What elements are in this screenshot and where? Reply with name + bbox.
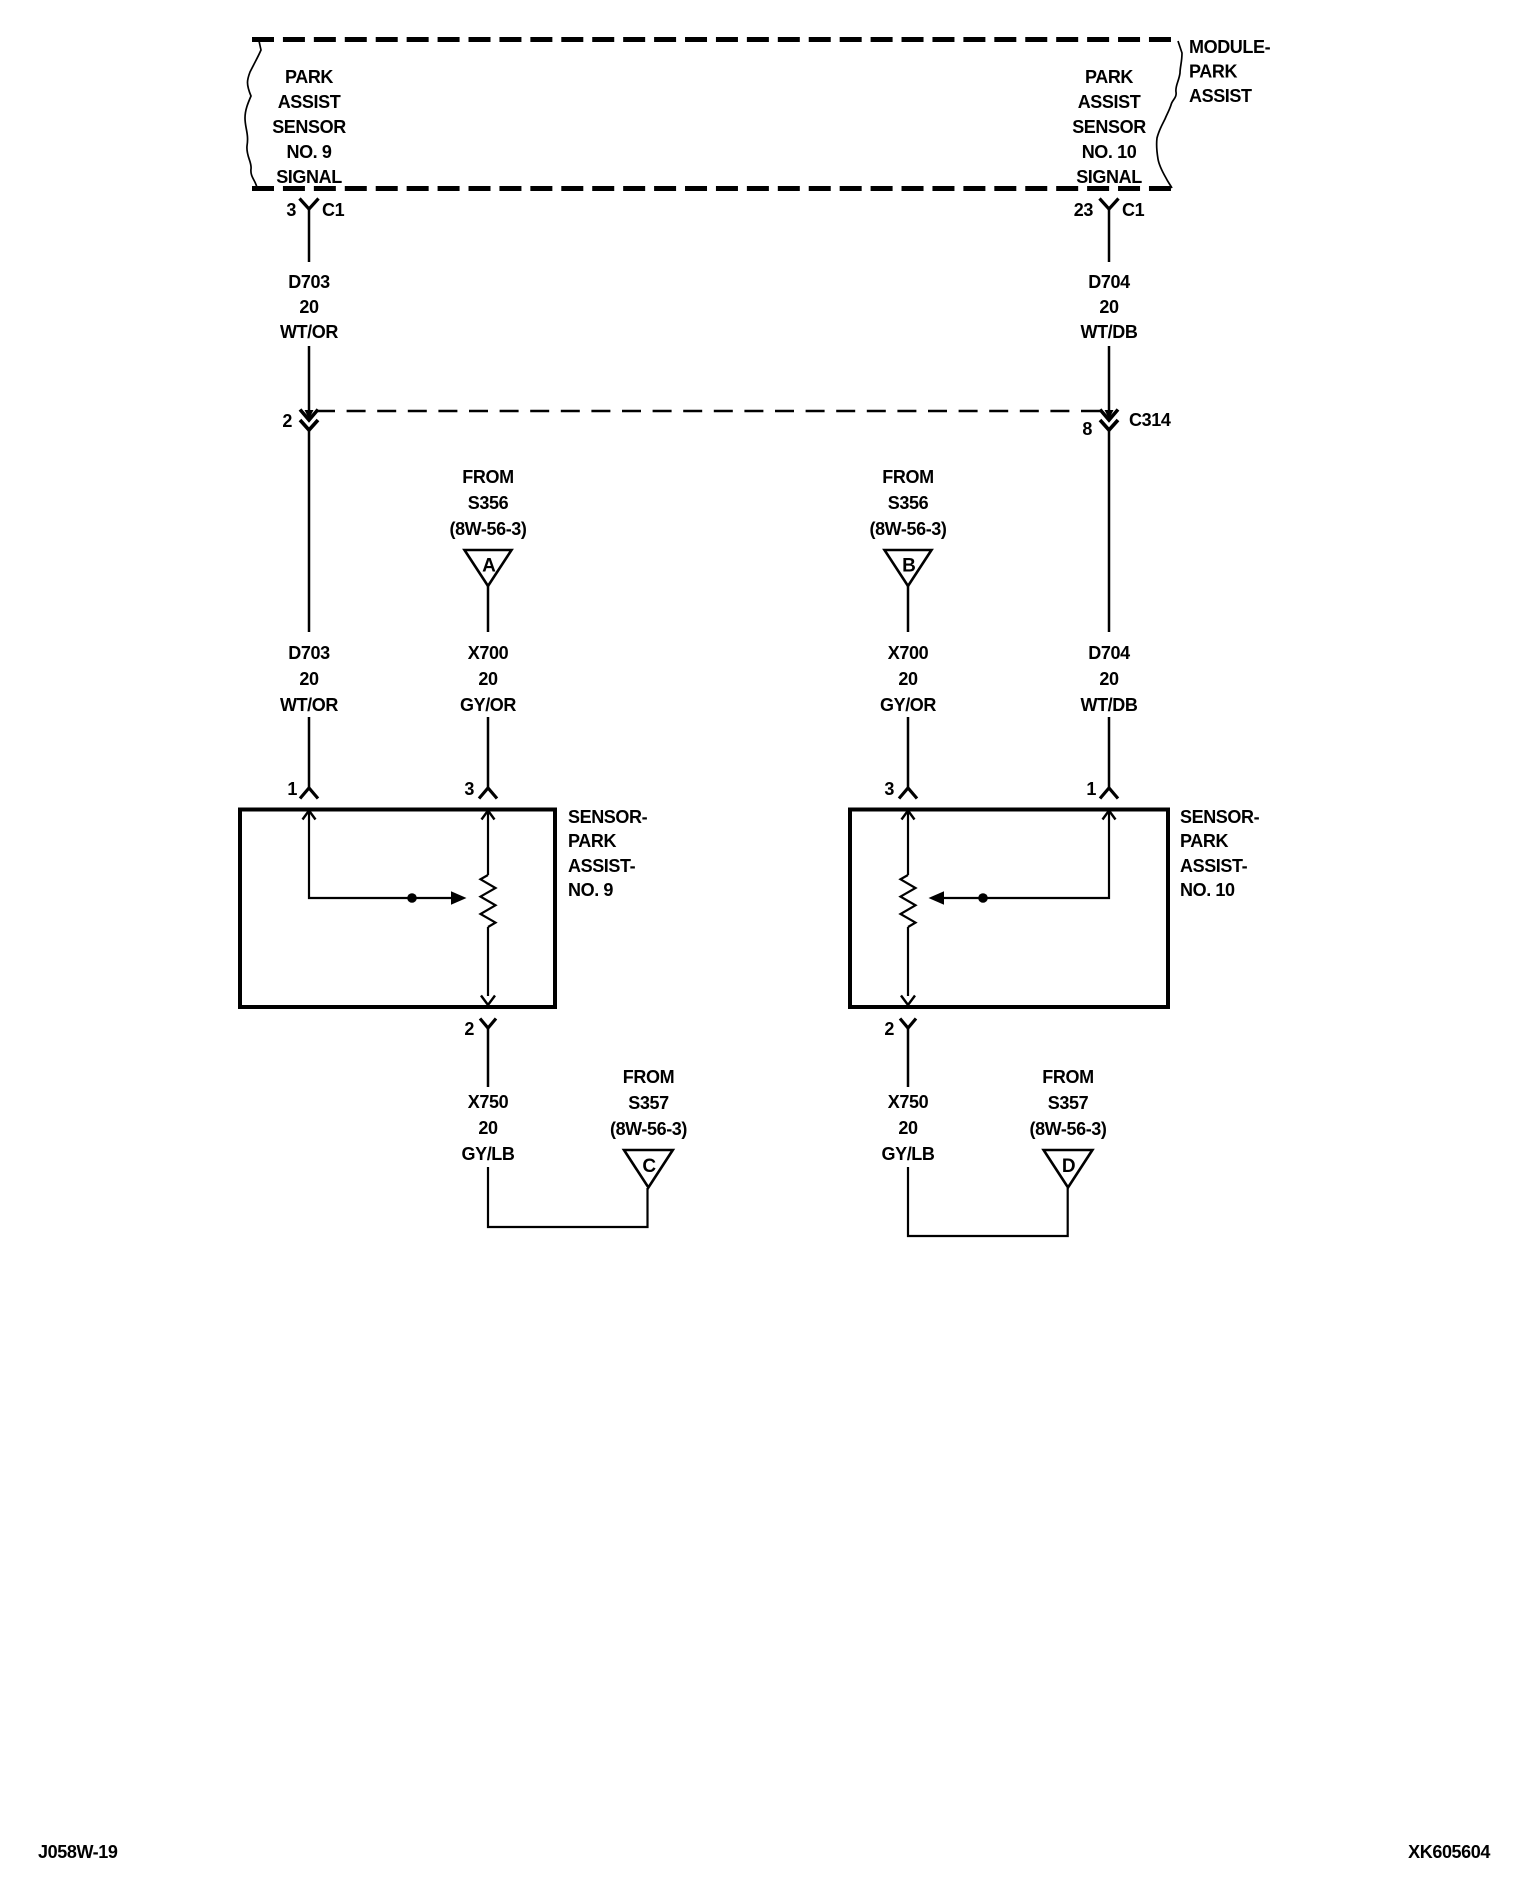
svg-text:XK605604: XK605604 <box>1408 1842 1490 1862</box>
module box left torn edge <box>245 41 261 188</box>
svg-text:2: 2 <box>884 1019 894 1039</box>
svg-text:C314: C314 <box>1129 410 1171 430</box>
splice triangle C <box>624 1150 673 1188</box>
wire D704 upper segment 2 <box>1108 346 1111 412</box>
svg-text:D: D <box>1062 1156 1076 1177</box>
module box right torn edge <box>1157 41 1182 188</box>
svg-text:B: B <box>902 556 916 577</box>
connector pin 2 fork (sensor 10) <box>884 1019 916 1040</box>
connector C314 dashed line <box>316 410 1100 413</box>
sensor 9 pin2 internal wire lower <box>487 927 489 996</box>
svg-text:ASSIST: ASSIST <box>278 92 341 112</box>
sensor 10 wiper junction dot <box>978 893 988 903</box>
svg-text:(8W-56-3): (8W-56-3) <box>449 519 526 539</box>
svg-text:MODULE-: MODULE- <box>1189 37 1271 57</box>
sensor 9 pin1 internal wire <box>309 812 451 898</box>
sensor 10 pin2 internal arrow <box>901 996 915 1006</box>
wire D704 lower segment 1 <box>1108 429 1111 632</box>
svg-text:(8W-56-3): (8W-56-3) <box>869 519 946 539</box>
sensor 9 wiper junction dot <box>407 893 417 903</box>
svg-text:GY/LB: GY/LB <box>881 1144 934 1164</box>
svg-text:S357: S357 <box>628 1093 669 1113</box>
svg-text:PARK: PARK <box>1085 67 1133 87</box>
svg-text:2: 2 <box>282 411 292 431</box>
splice triangle A <box>465 550 512 586</box>
svg-text:S356: S356 <box>888 493 929 513</box>
svg-text:(8W-56-3): (8W-56-3) <box>1029 1119 1106 1139</box>
sensor 9 label <box>568 807 648 900</box>
splice label FROM S356 (A) <box>449 467 526 539</box>
svg-text:GY/LB: GY/LB <box>461 1144 514 1164</box>
svg-text:SENSOR-: SENSOR- <box>568 807 648 827</box>
sensor park assist no.10 box <box>850 810 1168 1008</box>
svg-text:PARK: PARK <box>568 831 616 851</box>
wire X700 right segment 2 <box>907 717 910 788</box>
wire X700 left segment 1 <box>487 585 490 632</box>
svg-text:SIGNAL: SIGNAL <box>276 167 342 187</box>
svg-text:FROM: FROM <box>1042 1067 1093 1087</box>
svg-text:FROM: FROM <box>882 467 933 487</box>
connector pin 2 fork (sensor 9) <box>464 1019 496 1040</box>
svg-text:FROM: FROM <box>462 467 513 487</box>
svg-text:PARK: PARK <box>285 67 333 87</box>
svg-text:20: 20 <box>1099 669 1119 689</box>
wire D703 lower segment 1 <box>308 429 311 632</box>
svg-text:20: 20 <box>299 297 319 317</box>
svg-text:SIGNAL: SIGNAL <box>1076 167 1142 187</box>
wire X700 left segment 2 <box>487 717 490 788</box>
svg-text:23: 23 <box>1074 200 1094 220</box>
sensor 9 pin3 internal wire upper <box>487 812 489 875</box>
sensor 10 label <box>1180 807 1260 900</box>
svg-text:SENSOR-: SENSOR- <box>1180 807 1260 827</box>
wire label D703 20 WT/OR lower <box>280 643 338 715</box>
svg-text:D704: D704 <box>1088 272 1130 292</box>
wire label X700 20 GY/OR right <box>880 643 936 715</box>
svg-text:3: 3 <box>286 200 296 220</box>
wire label D704 20 WT/DB lower <box>1081 643 1138 715</box>
module box bottom dashed edge <box>252 186 1171 191</box>
svg-text:S357: S357 <box>1048 1093 1089 1113</box>
svg-text:A: A <box>482 556 496 577</box>
connector C314 pin 2 <box>282 410 318 432</box>
svg-text:D704: D704 <box>1088 643 1130 663</box>
wire X750 left segment 1 <box>487 1028 490 1087</box>
svg-text:WT/OR: WT/OR <box>280 695 338 715</box>
svg-text:PARK: PARK <box>1180 831 1228 851</box>
wire X750 right segment 1 <box>907 1028 910 1087</box>
wire X700 right segment 1 <box>907 585 910 632</box>
wire label X750 20 GY/LB left <box>461 1092 514 1164</box>
svg-text:NO. 10: NO. 10 <box>1180 880 1235 900</box>
svg-text:WT/DB: WT/DB <box>1081 322 1138 342</box>
svg-text:PARK: PARK <box>1189 62 1237 82</box>
svg-text:J058W-19: J058W-19 <box>38 1842 118 1862</box>
svg-text:D703: D703 <box>288 643 330 663</box>
sensor 9 pin2 internal arrow <box>481 996 495 1006</box>
sensor 9 resistor <box>481 875 496 927</box>
wire D704 lower segment 2 <box>1108 717 1111 788</box>
svg-text:SENSOR: SENSOR <box>272 117 346 137</box>
svg-text:S356: S356 <box>468 493 509 513</box>
connector C314 pin 8 <box>1082 410 1118 440</box>
wire label X700 20 GY/OR left <box>460 643 516 715</box>
svg-text:8: 8 <box>1082 419 1092 439</box>
svg-text:X750: X750 <box>888 1092 929 1112</box>
svg-text:20: 20 <box>478 1118 498 1138</box>
wire D704 upper segment 1 <box>1108 209 1111 262</box>
sensor 10 pin3 internal wire upper <box>907 812 909 875</box>
wire X750 left segment 2 to splice C <box>488 1167 648 1227</box>
svg-text:NO. 9: NO. 9 <box>286 142 331 162</box>
connector C1 pin 3 <box>286 199 344 221</box>
svg-text:X700: X700 <box>888 643 929 663</box>
wire X750 right segment 2 to splice D <box>908 1167 1068 1236</box>
svg-text:X700: X700 <box>468 643 509 663</box>
module box top dashed edge <box>252 37 1171 42</box>
wire label D703 20 WT/OR upper <box>280 272 338 342</box>
sensor 10 pin1 internal arrow <box>1103 811 1116 820</box>
svg-text:SENSOR: SENSOR <box>1072 117 1146 137</box>
svg-text:ASSIST: ASSIST <box>1078 92 1141 112</box>
splice label FROM S356 (B) <box>869 467 946 539</box>
sensor 9 wiper arrowhead <box>451 891 467 905</box>
svg-text:GY/OR: GY/OR <box>460 695 516 715</box>
module label MODULE- PARK ASSIST <box>1189 37 1271 106</box>
svg-text:C: C <box>642 1156 656 1177</box>
wire D703 lower segment 2 <box>308 717 311 788</box>
wire D703 upper segment 1 <box>308 209 311 262</box>
svg-text:3: 3 <box>464 779 474 799</box>
connector pin 1 fork (sensor 9) <box>287 779 318 799</box>
svg-text:FROM: FROM <box>623 1067 674 1087</box>
sensor 10 pin3 internal arrow <box>902 811 915 820</box>
splice triangle B <box>885 550 932 586</box>
svg-text:GY/OR: GY/OR <box>880 695 936 715</box>
svg-text:(8W-56-3): (8W-56-3) <box>610 1119 687 1139</box>
wire D703 upper segment 2 <box>308 346 311 412</box>
sensor 9 pin3 internal arrow <box>482 811 495 820</box>
connector C1 pin 23 <box>1074 199 1145 221</box>
splice triangle D <box>1044 1150 1093 1188</box>
connector pin 3 fork (sensor 10) <box>884 779 917 799</box>
sensor 10 resistor <box>901 875 916 927</box>
sensor 10 pin1 internal wire <box>944 812 1109 898</box>
connector pin 1 fork (sensor 10) <box>1086 779 1118 799</box>
svg-text:NO. 9: NO. 9 <box>568 880 613 900</box>
svg-text:WT/DB: WT/DB <box>1081 695 1138 715</box>
svg-text:C1: C1 <box>322 200 345 220</box>
sensor 9 pin1 internal arrow <box>303 811 316 820</box>
module pin label PARK ASSIST SENSOR NO. 9 SIGNAL <box>272 67 346 187</box>
svg-text:X750: X750 <box>468 1092 509 1112</box>
svg-text:20: 20 <box>898 669 918 689</box>
svg-text:20: 20 <box>898 1118 918 1138</box>
sensor 10 pin2 internal wire lower <box>907 927 909 996</box>
connector pin 3 fork (sensor 9) <box>464 779 497 799</box>
wire label D704 20 WT/DB upper <box>1081 272 1138 342</box>
svg-text:NO. 10: NO. 10 <box>1082 142 1137 162</box>
module pin label PARK ASSIST SENSOR NO. 10 SIGNAL <box>1072 67 1146 187</box>
sensor 10 wiper arrowhead <box>929 891 945 905</box>
svg-text:D703: D703 <box>288 272 330 292</box>
svg-text:20: 20 <box>299 669 319 689</box>
wire label X750 20 GY/LB right <box>881 1092 934 1164</box>
svg-text:ASSIST-: ASSIST- <box>1180 856 1248 876</box>
svg-text:WT/OR: WT/OR <box>280 322 338 342</box>
splice label FROM S357 (D) <box>1029 1067 1106 1139</box>
svg-text:ASSIST-: ASSIST- <box>568 856 636 876</box>
svg-text:20: 20 <box>478 669 498 689</box>
svg-text:3: 3 <box>884 779 894 799</box>
svg-text:20: 20 <box>1099 297 1119 317</box>
svg-text:1: 1 <box>1086 779 1096 799</box>
splice label FROM S357 (C) <box>610 1067 687 1139</box>
svg-text:2: 2 <box>464 1019 474 1039</box>
svg-text:1: 1 <box>287 779 297 799</box>
sensor park assist no.9 box <box>240 810 555 1008</box>
svg-text:ASSIST: ASSIST <box>1189 86 1252 106</box>
svg-text:C1: C1 <box>1122 200 1145 220</box>
